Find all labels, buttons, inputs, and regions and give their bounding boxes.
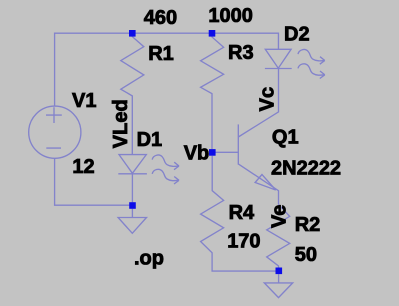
svg-text:R1: R1 [148, 43, 174, 65]
svg-text:170: 170 [227, 230, 260, 252]
svg-text:R2: R2 [295, 214, 321, 236]
svg-text:1000: 1000 [208, 5, 253, 27]
svg-text:2N2222: 2N2222 [271, 158, 341, 180]
svg-text:R4: R4 [229, 202, 255, 224]
svg-text:Q1: Q1 [272, 126, 299, 148]
svg-text:.op: .op [134, 248, 164, 270]
svg-text:50: 50 [295, 244, 317, 266]
svg-text:VLed: VLed [110, 99, 132, 148]
svg-text:Ve: Ve [269, 205, 291, 228]
svg-text:V1: V1 [72, 90, 96, 112]
svg-text:D2: D2 [284, 23, 310, 45]
svg-text:D1: D1 [137, 129, 163, 151]
svg-text:12: 12 [72, 156, 94, 178]
svg-text:460: 460 [144, 7, 177, 29]
svg-text:Vb: Vb [184, 143, 210, 165]
svg-text:R3: R3 [228, 42, 254, 64]
svg-text:Vc: Vc [256, 87, 278, 111]
